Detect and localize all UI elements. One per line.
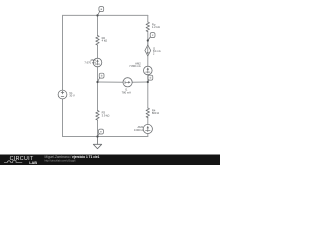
- junction node c: [147, 39, 149, 41]
- logo waveform: [4, 161, 22, 163]
- wire middle horizontal: [98, 81, 148, 83]
- resistor Rp: [146, 22, 149, 32]
- junction node d: [147, 81, 149, 83]
- wire stub flag c junction: [147, 41, 149, 46]
- wire left branch: [62, 15, 64, 136]
- wire right branch: [147, 15, 149, 136]
- voltage source V1: [58, 90, 67, 99]
- svg-text:4 kΩ: 4 kΩ: [102, 39, 108, 43]
- svg-text:http://circuitlab.com/c/5cgq6: http://circuitlab.com/c/5cgq6: [45, 160, 77, 163]
- ammeter AM3: [143, 124, 152, 133]
- svg-text:0.000 A: 0.000 A: [134, 128, 143, 132]
- dependent current source I2 (diamond): [145, 45, 151, 56]
- svg-text:780 mA: 780 mA: [122, 90, 131, 94]
- svg-text:1.2 kΩ: 1.2 kΩ: [152, 25, 160, 29]
- svg-text:Miguel-Zambrano / ejercicio 1: Miguel-Zambrano / ejercicio 1 T1 cie1: [45, 155, 100, 159]
- svg-text:c: c: [152, 33, 154, 37]
- ammeter AM1: [93, 58, 102, 67]
- junction node top: [96, 14, 98, 16]
- footer credit line: [45, 155, 100, 163]
- resistor R2: [96, 36, 99, 46]
- wire middle branch upper: [97, 15, 99, 82]
- node flag b: [98, 73, 105, 82]
- svg-text:7.670 mA: 7.670 mA: [84, 61, 96, 65]
- wire top rail: [63, 14, 148, 16]
- ground: [93, 137, 101, 149]
- svg-text:3.9 kΩ: 3.9 kΩ: [102, 113, 110, 117]
- node flag a: [98, 7, 104, 16]
- resistor R4: [146, 108, 149, 118]
- svg-text:7.890 mA: 7.890 mA: [129, 64, 141, 68]
- svg-text:LAB: LAB: [29, 161, 37, 165]
- wire middle branch lower: [97, 82, 99, 137]
- node flag c: [148, 33, 155, 41]
- CircuitLab logo wordmark: [10, 156, 38, 165]
- svg-text:30 V: 30 V: [69, 94, 75, 98]
- svg-text:a: a: [100, 7, 102, 11]
- wire bottom rail: [63, 136, 148, 138]
- resistor R3: [96, 111, 99, 121]
- label V1 value: [69, 91, 75, 98]
- junction node b: [96, 81, 98, 83]
- svg-text:d: d: [150, 76, 152, 80]
- junction node ground: [96, 135, 98, 137]
- current source I1 (circle with right arrow): [123, 78, 132, 87]
- ammeter AM2: [144, 66, 153, 75]
- footer bar: [0, 155, 220, 166]
- node flag d: [148, 75, 153, 82]
- node flag e: [98, 129, 104, 136]
- svg-text:e: e: [100, 130, 102, 134]
- svg-text:800 Ω: 800 Ω: [152, 111, 159, 115]
- svg-text:b: b: [101, 74, 103, 78]
